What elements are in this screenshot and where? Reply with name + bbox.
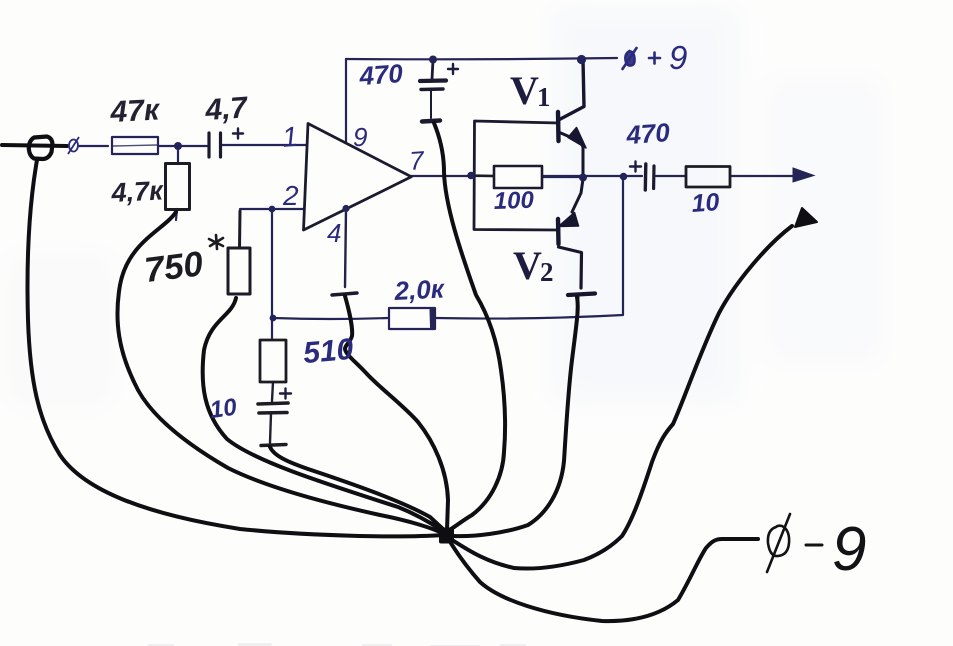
svg-text:V: V <box>510 68 539 113</box>
svg-text:V: V <box>513 243 542 288</box>
svg-text:750: 750 <box>142 244 205 290</box>
svg-text:470: 470 <box>624 117 671 150</box>
svg-text:2,0к: 2,0к <box>393 273 447 306</box>
svg-text:4,7: 4,7 <box>203 91 249 127</box>
svg-text:4: 4 <box>327 218 341 248</box>
svg-text:2: 2 <box>282 180 299 211</box>
svg-text:9: 9 <box>832 515 866 584</box>
svg-text:9: 9 <box>353 122 367 152</box>
svg-text:4,7к: 4,7к <box>110 175 165 208</box>
svg-text:9: 9 <box>669 39 687 76</box>
svg-text:10: 10 <box>208 394 239 425</box>
svg-text:2: 2 <box>540 257 554 287</box>
svg-text:1: 1 <box>537 82 551 112</box>
svg-text:47к: 47к <box>109 93 162 129</box>
svg-text:470: 470 <box>357 58 404 91</box>
svg-text:510: 510 <box>302 333 355 370</box>
svg-text:10: 10 <box>691 188 721 218</box>
svg-text:1: 1 <box>281 121 299 153</box>
svg-text:100: 100 <box>493 187 535 215</box>
